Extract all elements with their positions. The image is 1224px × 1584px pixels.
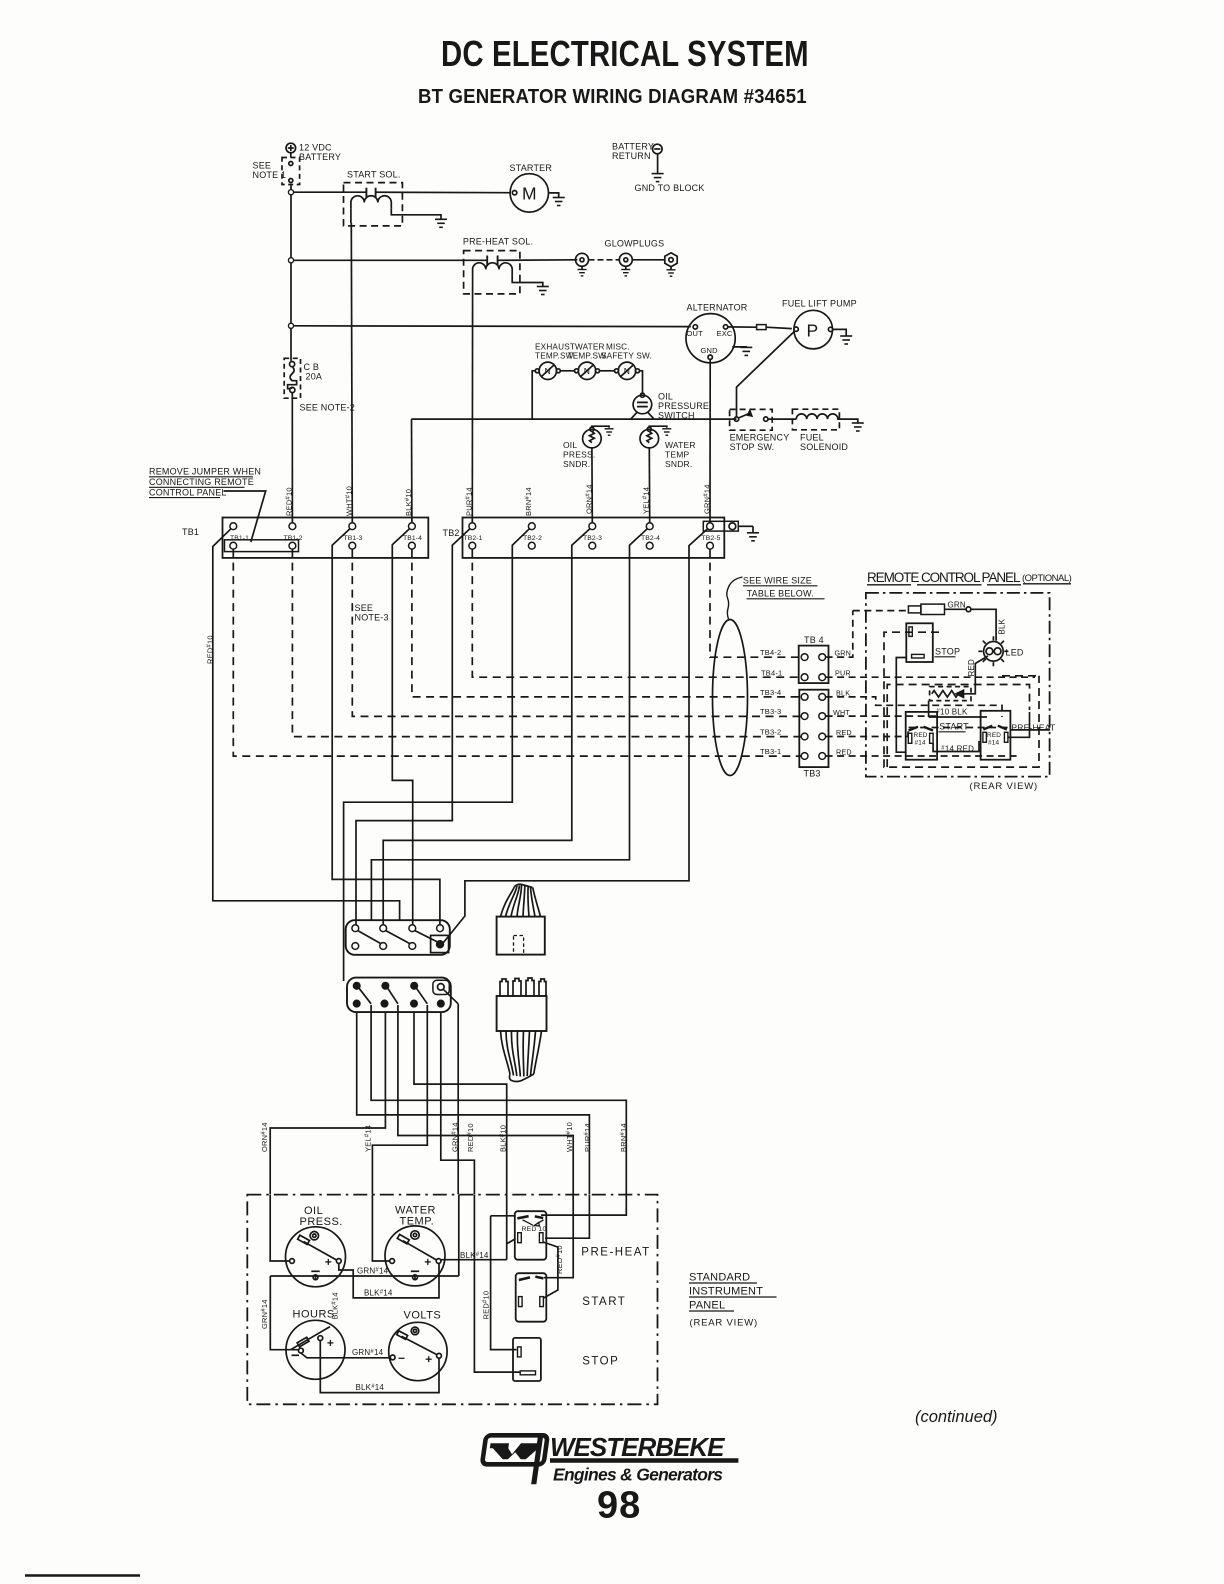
svg-text:TB3-4: TB3-4	[760, 688, 781, 697]
wire sw2-sw3	[600, 370, 615, 372]
svg-text:PANEL: PANEL	[689, 1300, 725, 1312]
svg-text:START: START	[939, 722, 969, 732]
svg-text:RED: RED	[987, 732, 1001, 739]
svg-text:PRE-HEAT: PRE-HEAT	[1011, 723, 1055, 733]
svg-text:98: 98	[597, 1485, 641, 1527]
emergency stop switch SW4 dashed box	[730, 409, 773, 430]
svg-text:CONTROL PANEL: CONTROL PANEL	[149, 487, 227, 497]
P1 pin 1 bottom	[352, 943, 359, 950]
P1 pin 2 bottom	[380, 943, 387, 950]
gauge titles	[293, 1205, 442, 1322]
svg-text:HOURS: HOURS	[293, 1309, 335, 1321]
wire start to preheat	[933, 741, 979, 752]
wire preheat right to start right	[543, 1242, 558, 1298]
pre-heat solenoid S2 dashed box	[464, 251, 520, 294]
wire BLK14 hours to volts bottom	[320, 1341, 439, 1393]
svg-text:GRN#14: GRN#14	[703, 484, 712, 514]
svg-text:TB4-2: TB4-2	[760, 648, 781, 657]
wire TB2-4 diagonal down	[371, 529, 647, 921]
remote resistor element	[932, 691, 959, 698]
wire BLK entry jog	[441, 1195, 516, 1260]
hours gauge G3	[286, 1320, 345, 1379]
svg-text:P: P	[807, 321, 819, 341]
terminal block TB1	[223, 518, 429, 558]
CB terminals and element	[288, 362, 297, 393]
svg-text:SNDR.: SNDR.	[563, 459, 590, 469]
P1 pin 3 bottom	[409, 943, 416, 950]
svg-text:PRESS.: PRESS.	[300, 1216, 343, 1228]
svg-text:ORN#14: ORN#14	[585, 484, 594, 514]
svg-text:START: START	[582, 1296, 626, 1308]
vertical wire labels above TB1/TB2	[206, 484, 712, 664]
svg-text:SOLENOID: SOLENOID	[800, 442, 848, 452]
wire RED TB3-2 into panel	[826, 728, 1010, 737]
svg-text:PRE-HEAT: PRE-HEAT	[581, 1247, 650, 1259]
oil pressure gauge G1	[286, 1227, 346, 1287]
wire P2-key to GRN panel entry	[457, 1004, 459, 1194]
svg-text:TB4-1: TB4-1	[761, 668, 782, 677]
TB terminal labels	[230, 535, 721, 542]
svg-text:VOLTS: VOLTS	[404, 1310, 442, 1322]
svg-text:TB3-1: TB3-1	[760, 747, 781, 756]
underline standard instrument panel	[689, 1283, 777, 1311]
svg-text:STARTER: STARTER	[510, 163, 553, 173]
hours gauge plus sign	[327, 1340, 333, 1346]
svg-text:BLK: BLK	[998, 618, 1007, 634]
P2 internal diagonal 1	[359, 988, 371, 1004]
svg-text:RED#10: RED#10	[482, 1291, 491, 1320]
inner dashed switch box	[887, 685, 1029, 768]
dashed wire TB2-5 to TB4-2	[710, 549, 801, 657]
glowplug 3	[665, 253, 677, 270]
svg-text:OIL: OIL	[658, 392, 673, 402]
svg-text:TB2-1: TB2-1	[464, 535, 483, 542]
label water temp sndr	[665, 440, 696, 469]
svg-text:RED: RED	[836, 748, 852, 757]
P2 internal diagonal 2	[388, 988, 398, 1004]
stop switch remote	[906, 623, 933, 662]
ground starter	[553, 198, 565, 206]
svg-text:GRN#14: GRN#14	[352, 1348, 384, 1357]
wire P2-d1 to BRN panel entry	[371, 1005, 626, 1194]
svg-text:TB2: TB2	[443, 528, 460, 538]
harness H2 prongs	[500, 978, 546, 996]
water temp switch SW2	[575, 362, 600, 379]
terminal block TB4	[799, 646, 829, 684]
TB4/TB3 row labels	[760, 648, 782, 756]
jumper TB1-1 to TB1-2	[225, 540, 299, 552]
coil output wire to ground	[391, 208, 441, 219]
svg-text:GRN: GRN	[835, 649, 852, 658]
svg-text:PUR: PUR	[835, 669, 851, 678]
P1 internal diagonal 3	[415, 931, 438, 942]
harness H2 body	[497, 996, 547, 1031]
standard instrument panel label	[689, 1272, 763, 1329]
P2 key pin top right	[433, 980, 449, 994]
wire BRN entry to preheat top	[541, 1195, 626, 1216]
TB2-3 terminals	[589, 523, 596, 530]
wire EXC to connector	[728, 326, 757, 328]
svg-text:TB3: TB3	[804, 769, 821, 779]
svg-text:GRN: GRN	[948, 601, 966, 610]
svg-text:TB1-2: TB1-2	[284, 535, 303, 542]
P1 pin 1 top	[352, 925, 359, 932]
oil gauge plus sign	[325, 1259, 331, 1265]
svg-text:C B: C B	[304, 362, 320, 372]
svg-text:PRE-HEAT SOL.: PRE-HEAT SOL.	[463, 237, 533, 247]
svg-text:INSTRUMENT: INSTRUMENT	[689, 1286, 763, 1298]
wire P2-3 to BLK panel entry	[414, 1012, 507, 1194]
wire contact to glowplugs	[498, 259, 578, 262]
underline remove jumper note	[149, 476, 253, 478]
wire P2-1 to PUR panel entry	[357, 1012, 590, 1194]
svg-text:SEE: SEE	[253, 161, 272, 171]
svg-text:#14: #14	[915, 740, 927, 747]
wire TB2-2 diagonal down	[344, 529, 530, 981]
TB2-5 jumper to ground	[703, 521, 753, 533]
svg-text:FUEL: FUEL	[800, 433, 824, 443]
svg-text:NOTE-3: NOTE-3	[355, 613, 389, 623]
wire bus3 to alternator OUT	[293, 325, 691, 328]
TB1-1 terminals	[230, 523, 237, 530]
wire battery return to ground	[657, 154, 659, 174]
misc safety switch SW3	[615, 362, 640, 379]
svg-text:N: N	[545, 366, 551, 376]
underline stop/start remote	[935, 656, 956, 658]
ground fuel solenoid	[852, 423, 864, 431]
glowplug 2	[619, 253, 632, 269]
see wire size arrow squiggle	[727, 577, 743, 619]
harness H1 body	[497, 917, 545, 955]
svg-text:Engines & Generators: Engines & Generators	[553, 1465, 723, 1485]
wire bus2 to pre-heat contact	[293, 259, 487, 261]
svg-text:M: M	[522, 184, 537, 204]
wire starter to ground	[549, 193, 559, 198]
svg-text:OUT: OUT	[687, 329, 704, 338]
wire BLK14 oil to water	[339, 1263, 439, 1298]
stop switch panel	[513, 1338, 541, 1381]
wire TB2-1 diagonal down	[356, 529, 470, 925]
svg-text:BRN#14: BRN#14	[619, 1123, 628, 1152]
svg-text:RED: RED	[914, 732, 928, 739]
svg-text:GRN#14: GRN#14	[451, 1122, 460, 1152]
switch row labels	[545, 366, 631, 376]
P2 pin 2 top	[382, 983, 388, 989]
svg-text:#14 RED: #14 RED	[941, 745, 974, 754]
P2 key pin wire diagonal	[444, 990, 458, 1004]
svg-text:12 VDC: 12 VDC	[299, 143, 332, 153]
start switch panel	[516, 1273, 547, 1322]
wire TB1-4 diagonal down	[392, 529, 412, 925]
svg-text:GND: GND	[701, 346, 719, 355]
wire TB2-3 diagonal down	[383, 529, 590, 925]
svg-text:TB2-5: TB2-5	[702, 535, 721, 542]
harness H1 detail	[514, 936, 524, 955]
oil pressure switch legs	[631, 412, 654, 419]
terminal block TB2	[463, 518, 725, 558]
wire resistor to start top (10 BLK)	[929, 701, 987, 717]
oil pressure switch PS1	[633, 393, 652, 414]
dashed wire TB2-1 to TB4-1	[472, 549, 801, 677]
inline connector (fuel pump lead)	[757, 325, 767, 330]
svg-text:TABLE BELOW.: TABLE BELOW.	[747, 589, 814, 599]
svg-text:WATER: WATER	[665, 440, 696, 450]
pre-heat coil	[473, 263, 513, 276]
ground gnd-to-block	[652, 174, 664, 182]
svg-text:SEE WIRE SIZE: SEE WIRE SIZE	[743, 576, 812, 586]
svg-text:RETURN: RETURN	[612, 151, 651, 161]
panel wire labels	[260, 1226, 564, 1392]
volts gauge signs	[399, 1356, 432, 1362]
LED lamp	[978, 636, 1008, 666]
svg-text:GND TO BLOCK: GND TO BLOCK	[635, 183, 705, 193]
svg-text:PUR#14: PUR#14	[583, 1123, 592, 1152]
wire TB1-3 diagonal down	[332, 529, 440, 925]
start solenoid coil	[351, 196, 391, 208]
svg-text:(REAR VIEW): (REAR VIEW)	[690, 1318, 758, 1329]
svg-text:BT GENERATOR WIRING DIAGRAM #3: BT GENERATOR WIRING DIAGRAM #34651	[418, 86, 807, 108]
oil pressure sender R1	[583, 427, 602, 448]
terminal block TB3	[799, 690, 828, 767]
svg-text:TEMP: TEMP	[665, 450, 690, 460]
TB2-5 terminals	[707, 523, 714, 530]
svg-text:WHT: WHT	[833, 708, 850, 717]
svg-text:LED: LED	[1006, 648, 1024, 658]
svg-text:BLK: BLK	[836, 689, 850, 698]
svg-text:ALTERNATOR: ALTERNATOR	[687, 303, 748, 313]
wire battery to bus	[290, 153, 292, 158]
svg-text:EXHAUST: EXHAUST	[535, 343, 575, 352]
svg-text:EXC: EXC	[717, 329, 733, 338]
svg-text:BLK#10: BLK#10	[404, 489, 413, 516]
wire WHT entry to start switch	[544, 1195, 573, 1278]
wire preheat top-left contact	[507, 1216, 515, 1217]
svg-text:NOTE 1: NOTE 1	[253, 170, 287, 180]
svg-text:GRN#14: GRN#14	[260, 1299, 269, 1329]
start solenoid S1 dashed box	[344, 183, 403, 226]
P1 internal diagonal 2	[386, 931, 410, 944]
remote resistor dashed box	[930, 687, 971, 701]
svg-text:N: N	[584, 366, 590, 376]
svg-text:#14: #14	[988, 740, 1000, 747]
svg-text:20A: 20A	[306, 372, 323, 382]
wire wt sender to TB2-4 (YEL)	[648, 448, 650, 523]
svg-text:CONNECTING REMOTE: CONNECTING REMOTE	[149, 477, 254, 487]
glowplug 1	[576, 253, 589, 269]
wire RED TB3-1 into panel	[826, 755, 1018, 757]
wire pump to ground	[833, 329, 846, 336]
TB2-4 terminals	[646, 523, 653, 530]
ground pre-heat sol	[537, 287, 549, 295]
P1 internal diagonal 1	[358, 931, 381, 944]
alternator GND wire to TB2-5	[709, 359, 711, 522]
emergency stop contacts and lever	[734, 411, 768, 422]
svg-text:RED#10: RED#10	[466, 1123, 475, 1152]
dashed wire TB1-1 to TB3-1	[233, 549, 801, 756]
wire WHT TB3-3 into panel	[826, 715, 938, 717]
svg-text:PRESSURE: PRESSURE	[658, 401, 709, 411]
wire TB1-1 diagonal to harness	[213, 529, 400, 921]
TB4-2 terminals	[801, 654, 808, 661]
water gauge plus sign	[425, 1259, 431, 1265]
wire stop switch to start switch	[896, 658, 906, 753]
wire sw1 left leg down to bus	[532, 371, 535, 419]
alternator U1	[686, 314, 735, 363]
pre-heat contact	[487, 256, 497, 266]
wire emergency stop to fuel solenoid	[768, 418, 796, 420]
TB3-4 terminals	[801, 694, 808, 701]
wire coil to TB1-3 (WHT)	[350, 208, 352, 223]
battery 12VDC positive terminal	[286, 143, 296, 153]
wire sw3 to oil pressure switch	[640, 371, 643, 393]
TB4-1 terminals	[801, 674, 808, 681]
ground alternator	[740, 347, 752, 355]
TB1-3 terminals	[349, 523, 356, 530]
westerbeke logo	[479, 1408, 997, 1527]
wire pump terminal to emergency stop (diagonal)	[737, 331, 795, 417]
wire LED to resistor	[964, 656, 989, 694]
wire GRN14 hours to volts	[301, 1353, 390, 1358]
ground fuel pump	[840, 336, 852, 344]
svg-text:#10 BLK: #10 BLK	[937, 708, 968, 717]
svg-text:SWITCH: SWITCH	[658, 411, 695, 421]
wire YEL entry to water gauge	[372, 1195, 389, 1261]
svg-text:TEMP.: TEMP.	[400, 1216, 435, 1228]
GRN butt connector	[908, 604, 944, 614]
svg-text:SEE NOTE-2: SEE NOTE-2	[300, 403, 356, 413]
svg-text:GRN#14: GRN#14	[357, 1267, 389, 1276]
wire BLK TB3-4 into panel	[826, 697, 1002, 717]
P2 internal diagonal 3	[416, 988, 427, 1004]
svg-text:PUR#14: PUR#14	[465, 487, 474, 516]
svg-text:OIL: OIL	[563, 440, 577, 450]
TB3-3 terminals	[801, 713, 808, 720]
P2 pin 1 top	[354, 983, 360, 989]
node A junction	[288, 190, 293, 195]
node B junction	[288, 258, 293, 263]
connector P2 body	[347, 978, 451, 1013]
starter motor M	[510, 174, 548, 212]
volts gauge G4	[389, 1322, 447, 1380]
TB3-1 terminals	[801, 753, 808, 760]
svg-text:BLK#14: BLK#14	[331, 1292, 340, 1319]
svg-text:WESTERBEKE: WESTERBEKE	[550, 1432, 725, 1462]
svg-text:RED: RED	[967, 659, 976, 677]
svg-text:WHT#10: WHT#10	[345, 486, 354, 516]
TB4/TB3 wire color labels	[833, 649, 852, 757]
svg-text:ORN#14: ORN#14	[260, 1122, 269, 1152]
underline remote control panel	[867, 584, 1071, 585]
ground TB2-5	[747, 533, 759, 541]
svg-text:TB2-3: TB2-3	[583, 535, 602, 542]
svg-text:(continued): (continued)	[915, 1408, 998, 1426]
wire P2-2 to ORN panel entry	[270, 1012, 385, 1194]
wire bus corner down to TB1-4 (BLK)	[411, 419, 413, 523]
start switch remote	[906, 712, 937, 760]
svg-text:STOP: STOP	[582, 1356, 619, 1368]
TB2-1 terminals	[469, 523, 476, 530]
wire PUR TB4-1 into panel	[826, 676, 1035, 678]
svg-text:STOP: STOP	[935, 647, 960, 657]
TB1-4 terminals	[409, 523, 416, 530]
svg-text:SNDR.: SNDR.	[665, 459, 692, 469]
svg-text:(REAR VIEW): (REAR VIEW)	[970, 781, 1038, 792]
safety bus wire y419	[411, 418, 736, 420]
wire CB to TB1-2 (RED)	[291, 393, 293, 523]
harness H1 wire bundle	[501, 884, 541, 916]
svg-text:WHT#10: WHT#10	[565, 1122, 574, 1152]
instrument panel dash-dot box	[247, 1195, 657, 1405]
svg-text:BLK#14: BLK#14	[356, 1383, 385, 1392]
GRN wire junction circle	[966, 607, 971, 612]
main left bus vertical	[290, 185, 292, 361]
svg-text:STOP SW.: STOP SW.	[730, 442, 775, 452]
node C junction	[288, 323, 293, 328]
preheat switch panel	[515, 1211, 547, 1260]
dashed wire TB1-3 to TB3-3	[352, 549, 801, 716]
P2 pin 4 bottom	[438, 1000, 444, 1006]
wire preheat to panel edge	[1008, 712, 1050, 737]
P1 pin 3 top	[409, 925, 416, 932]
P2 pin 1 bottom	[354, 1000, 360, 1006]
P1 pin 4 top	[437, 925, 444, 932]
TB2-2 terminals	[528, 523, 535, 530]
svg-text:TB 4: TB 4	[804, 635, 824, 645]
svg-text:BRN#14: BRN#14	[524, 487, 533, 516]
exhaust temp switch SW1	[535, 362, 560, 379]
cable bundle ellipse	[713, 620, 748, 776]
jumper pointer line	[224, 491, 266, 542]
wire glowplug2-3	[632, 259, 664, 261]
svg-text:RED#10: RED#10	[206, 635, 215, 664]
remote panel outer dash-dot box	[866, 593, 1050, 777]
wire glowplug1-2	[589, 259, 620, 261]
svg-text:BLK#14: BLK#14	[460, 1251, 489, 1260]
wire ops sender to TB2-3 (ORN)	[591, 448, 593, 523]
wire TB2-5 diagonal down	[444, 529, 708, 943]
svg-text:RED#10: RED#10	[555, 1245, 564, 1274]
vertical labels above instrument panel	[260, 1122, 628, 1152]
svg-text:RED 10: RED 10	[522, 1226, 547, 1233]
wire sw1-sw2	[560, 370, 574, 372]
svg-text:(OPTIONAL): (OPTIONAL)	[1022, 573, 1072, 584]
svg-text:BATTERY: BATTERY	[612, 142, 654, 152]
fuel lift pump P	[794, 310, 833, 349]
dashed wire TB1-4 to TB3-4	[412, 549, 802, 697]
svg-text:YEL#14: YEL#14	[364, 1125, 373, 1152]
wire pre-heat coil to TB2-1 (PUR)	[471, 276, 473, 523]
svg-text:GLOWPLUGS: GLOWPLUGS	[605, 239, 665, 249]
wire connector to LED	[945, 609, 997, 641]
wire P2-4 to RED panel entry	[441, 1012, 475, 1194]
TB3-2 terminals	[801, 733, 808, 740]
wire alternator case to ground	[732, 346, 746, 349]
svg-text:TB1-3: TB1-3	[344, 535, 363, 542]
wire contact to starter	[376, 191, 511, 194]
circuit breaker CB 20A dashed box	[284, 358, 300, 398]
wire connector to fuel pump	[766, 327, 792, 328]
start solenoid contact	[366, 188, 375, 198]
battery return terminal	[653, 144, 663, 154]
wire ORN entry to oil gauge	[270, 1195, 289, 1261]
svg-text:TB1: TB1	[182, 527, 199, 537]
harness H2 wire bundle	[501, 1031, 542, 1082]
wire PUR entry to preheat terminal	[545, 1195, 589, 1239]
page artifact rule bottom left	[25, 1574, 140, 1577]
svg-text:TB3-2: TB3-2	[760, 728, 781, 737]
svg-text:DC ELECTRICAL SYSTEM: DC ELECTRICAL SYSTEM	[441, 33, 809, 74]
svg-text:RED#10: RED#10	[285, 487, 294, 516]
